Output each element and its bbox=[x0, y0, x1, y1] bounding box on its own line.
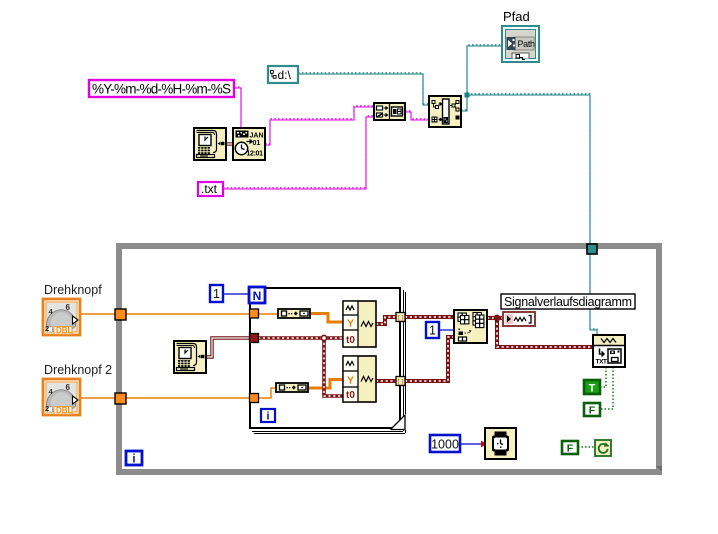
svg-text:.txt: .txt bbox=[201, 182, 218, 196]
svg-text:d:\: d:\ bbox=[278, 68, 292, 82]
svg-text:t0: t0 bbox=[346, 335, 355, 346]
svg-text:i: i bbox=[266, 411, 269, 423]
svg-text:F: F bbox=[589, 405, 596, 417]
svg-text:%Y-%m-%d-%H-%m-%S: %Y-%m-%d-%H-%m-%S bbox=[92, 82, 231, 97]
svg-text:12:01: 12:01 bbox=[247, 151, 264, 158]
svg-text:[]: [] bbox=[397, 315, 405, 322]
svg-text:1: 1 bbox=[213, 287, 220, 301]
svg-text:DBL: DBL bbox=[56, 406, 73, 415]
svg-text:2: 2 bbox=[45, 404, 49, 413]
svg-text:T: T bbox=[589, 383, 596, 395]
svg-text:Pfad: Pfad bbox=[503, 9, 530, 24]
svg-text:F: F bbox=[567, 443, 574, 455]
svg-text:Signalverlaufsdiagramm: Signalverlaufsdiagramm bbox=[504, 295, 632, 309]
svg-text:Y: Y bbox=[347, 375, 354, 387]
svg-text:Drehknopf: Drehknopf bbox=[44, 283, 102, 297]
svg-text:[]: [] bbox=[397, 379, 405, 386]
svg-text:t0: t0 bbox=[346, 390, 355, 401]
svg-text:Path: Path bbox=[518, 39, 536, 49]
svg-text:1000: 1000 bbox=[431, 438, 459, 452]
svg-text:DBL: DBL bbox=[56, 326, 73, 335]
svg-text:JAN: JAN bbox=[250, 133, 264, 140]
svg-text:1: 1 bbox=[429, 324, 436, 338]
svg-text:01: 01 bbox=[253, 140, 261, 147]
svg-text:Y: Y bbox=[347, 318, 354, 330]
svg-text:Drehknopf 2: Drehknopf 2 bbox=[44, 363, 112, 377]
svg-text:i: i bbox=[132, 454, 135, 466]
svg-text:2: 2 bbox=[45, 324, 49, 333]
svg-text:TXT: TXT bbox=[596, 359, 608, 366]
svg-text:6: 6 bbox=[66, 383, 71, 392]
svg-text:N: N bbox=[253, 289, 262, 303]
svg-text:6: 6 bbox=[66, 303, 71, 312]
